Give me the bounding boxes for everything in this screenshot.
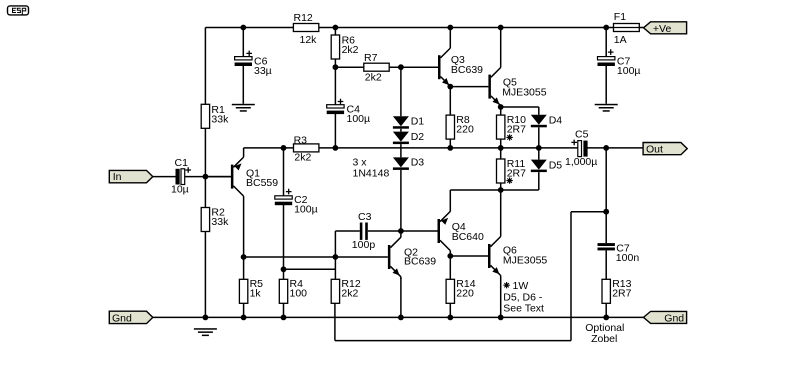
resistor R12 2k2 lower xyxy=(331,278,361,303)
wire C1 to base node xyxy=(185,176,231,178)
label 3 x 1N4148 xyxy=(353,156,390,179)
wire input to C1 xyxy=(153,176,176,178)
svg-text:In: In xyxy=(113,171,122,183)
svg-text:Gnd: Gnd xyxy=(112,312,132,324)
diode D5 xyxy=(531,160,562,173)
transistor Q1 BC559 xyxy=(231,148,278,257)
wire mid output rail xyxy=(244,147,643,149)
wire ground rail xyxy=(153,316,644,318)
wire R6/R7 node to R7 xyxy=(335,66,401,68)
wire R11 branch xyxy=(500,148,502,190)
svg-text:R3: R3 xyxy=(294,134,308,146)
resistor R5 1k xyxy=(239,278,263,303)
svg-text:10µ: 10µ xyxy=(171,184,189,196)
diode D3 xyxy=(393,157,424,170)
connector In xyxy=(109,170,153,183)
svg-text:D2: D2 xyxy=(411,131,425,143)
wire Q4 emitter vertical xyxy=(449,190,451,211)
svg-text:MJE3055: MJE3055 xyxy=(502,87,547,99)
wire Q6 collector xyxy=(500,190,502,235)
resistor R12 12k xyxy=(293,12,318,46)
svg-text:220: 220 xyxy=(456,124,474,136)
wire R13 bottom xyxy=(605,303,607,317)
resistor R1 33k xyxy=(201,104,229,129)
resistor R11 2R7 xyxy=(497,158,527,184)
ground symbol left xyxy=(194,328,217,336)
svg-text:33k: 33k xyxy=(211,113,229,125)
node junction dots xyxy=(203,25,610,321)
wire Q5 emitter node to D4 xyxy=(501,107,539,115)
svg-text:Out: Out xyxy=(646,144,663,156)
wire C2 bottom to feedback node xyxy=(283,204,285,269)
svg-text:Zobel: Zobel xyxy=(591,333,617,345)
svg-text:D3: D3 xyxy=(411,157,425,169)
wire Q1 base xyxy=(205,176,231,178)
connector +Ve xyxy=(644,22,687,35)
svg-text:100µ: 100µ xyxy=(347,113,371,125)
wire R5 branch xyxy=(243,257,245,317)
logo ESP xyxy=(8,6,29,15)
svg-text:220: 220 xyxy=(456,288,474,300)
diode D1 xyxy=(393,115,424,128)
connector Gnd right xyxy=(644,311,687,324)
svg-text:C5: C5 xyxy=(575,129,589,141)
svg-text:2R7: 2R7 xyxy=(612,288,631,300)
svg-text:+Ve: +Ve xyxy=(653,23,672,35)
connector Gnd left xyxy=(109,311,153,324)
svg-text:33k: 33k xyxy=(211,216,229,228)
transistor Q5 MJE3055 xyxy=(488,66,546,106)
capacitor C4 100u xyxy=(327,99,370,125)
wire Q2 emitter vertical xyxy=(400,278,402,318)
wire R14 branch xyxy=(449,256,451,317)
wire C2 top branch xyxy=(283,148,285,196)
svg-text:12k: 12k xyxy=(300,34,318,46)
ground symbol under C7 xyxy=(595,104,618,112)
wire R12 bottom column to node xyxy=(334,257,336,279)
wire Q6 emitter xyxy=(500,277,502,318)
transistor Q3 BC639 xyxy=(438,46,483,86)
wire R8 branch xyxy=(449,87,451,148)
wire left column vertical R1/R2 xyxy=(204,28,206,318)
resistor R13 2R7 xyxy=(602,278,632,303)
svg-text:2R7: 2R7 xyxy=(507,124,526,136)
resistor R2 33k xyxy=(201,207,229,232)
wire C7 supply bypass branch xyxy=(605,28,607,104)
wire C4 branch xyxy=(334,67,336,148)
svg-text:BC639: BC639 xyxy=(451,64,483,76)
wire R4 bottom xyxy=(283,303,285,317)
wire D5 branch xyxy=(538,148,540,190)
svg-text:1W: 1W xyxy=(513,280,529,292)
wire C3 to Q2 collector node xyxy=(368,230,401,232)
capacitor C6 33u xyxy=(235,51,272,77)
svg-text:2k2: 2k2 xyxy=(365,72,382,84)
wire diode chain column xyxy=(400,67,402,231)
diode D2 xyxy=(393,131,424,144)
svg-text:1k: 1k xyxy=(250,288,262,300)
wire top supply rail right segment xyxy=(319,27,614,29)
diode D4 xyxy=(531,114,562,127)
svg-text:100µ: 100µ xyxy=(294,203,318,215)
svg-text:100p: 100p xyxy=(352,239,376,251)
wire Q1 collector rail to Q2 base xyxy=(244,256,388,258)
wire R10 branch xyxy=(500,107,502,148)
wire C6 branch xyxy=(242,28,244,104)
transistor Q6 MJE3055 xyxy=(488,235,547,277)
connector Out xyxy=(643,143,687,156)
svg-text:D5: D5 xyxy=(549,160,563,172)
svg-text:C3: C3 xyxy=(358,211,372,223)
capacitor C7 100n zobel xyxy=(598,243,640,265)
svg-text:BC559: BC559 xyxy=(246,177,278,189)
wire Q3 emitter node to Q5 base xyxy=(450,86,488,88)
wire zobel node to C7 xyxy=(605,212,607,280)
capacitor C7 100u top right xyxy=(598,49,641,77)
label optional zobel xyxy=(585,322,624,345)
svg-text:Gnd: Gnd xyxy=(664,312,684,324)
svg-text:MJE3055: MJE3055 xyxy=(503,255,548,267)
svg-text:D4: D4 xyxy=(549,114,563,126)
wire bootstrap loop xyxy=(335,212,606,341)
svg-text:BC639: BC639 xyxy=(404,255,436,267)
transistor Q2 BC639 xyxy=(388,231,436,279)
svg-text:100µ: 100µ xyxy=(617,65,641,77)
wire R6 branch xyxy=(334,28,336,68)
wire feedback node to R12 column xyxy=(284,268,336,270)
svg-text:1A: 1A xyxy=(614,34,627,46)
capacitor C3 100p xyxy=(352,211,376,251)
wire Q4 collector to Q6 base xyxy=(450,252,488,256)
svg-text:1N4148: 1N4148 xyxy=(353,167,390,179)
svg-text:See Text: See Text xyxy=(503,303,544,315)
svg-text:2k2: 2k2 xyxy=(294,151,311,163)
svg-text:33µ: 33µ xyxy=(254,65,272,77)
wire D4 to rail xyxy=(538,127,540,148)
resistor R6 2k2 xyxy=(331,34,358,59)
svg-text:BC640: BC640 xyxy=(452,231,484,243)
wire Q4 emitter node row xyxy=(450,189,539,191)
wire R7 node to Q3 base xyxy=(401,66,438,68)
svg-text:C1: C1 xyxy=(175,157,189,169)
svg-text:2k2: 2k2 xyxy=(341,288,358,300)
transistor Q4 BC640 xyxy=(438,210,484,256)
svg-text:100n: 100n xyxy=(616,252,640,264)
resistor R4 100 xyxy=(279,278,307,303)
wire Q3 collector xyxy=(449,28,451,47)
svg-text:100: 100 xyxy=(290,288,308,300)
capacitor C2 100u xyxy=(275,189,318,216)
resistor R10 2R7 xyxy=(497,114,527,140)
resistor R3 2k2 xyxy=(294,134,319,163)
resistor R8 220 xyxy=(446,114,474,139)
wire Q5 collector xyxy=(500,28,502,66)
wire top supply rail left segment xyxy=(205,27,293,29)
capacitor C1 10u input xyxy=(171,157,191,196)
wire C3 left hook xyxy=(335,231,359,257)
ground symbol under C6 xyxy=(232,104,255,112)
svg-text:D1: D1 xyxy=(411,115,425,127)
svg-text:2k2: 2k2 xyxy=(342,44,359,56)
svg-text:F1: F1 xyxy=(614,11,626,23)
label power note xyxy=(503,280,544,315)
resistor R14 220 xyxy=(446,278,476,303)
svg-text:R12: R12 xyxy=(294,12,313,24)
wire R4 top xyxy=(283,269,285,279)
fuse F1 1A xyxy=(614,11,640,46)
capacitor C5 1000u output xyxy=(565,129,597,168)
wire Q2 collector node to Q4 base xyxy=(401,230,438,232)
svg-text:R7: R7 xyxy=(364,52,378,64)
wire output node down to zobel xyxy=(605,148,607,212)
svg-text:1,000µ: 1,000µ xyxy=(565,156,597,168)
resistor R7 2k2 xyxy=(364,52,389,84)
wire fuse to +Ve tip xyxy=(639,27,643,29)
